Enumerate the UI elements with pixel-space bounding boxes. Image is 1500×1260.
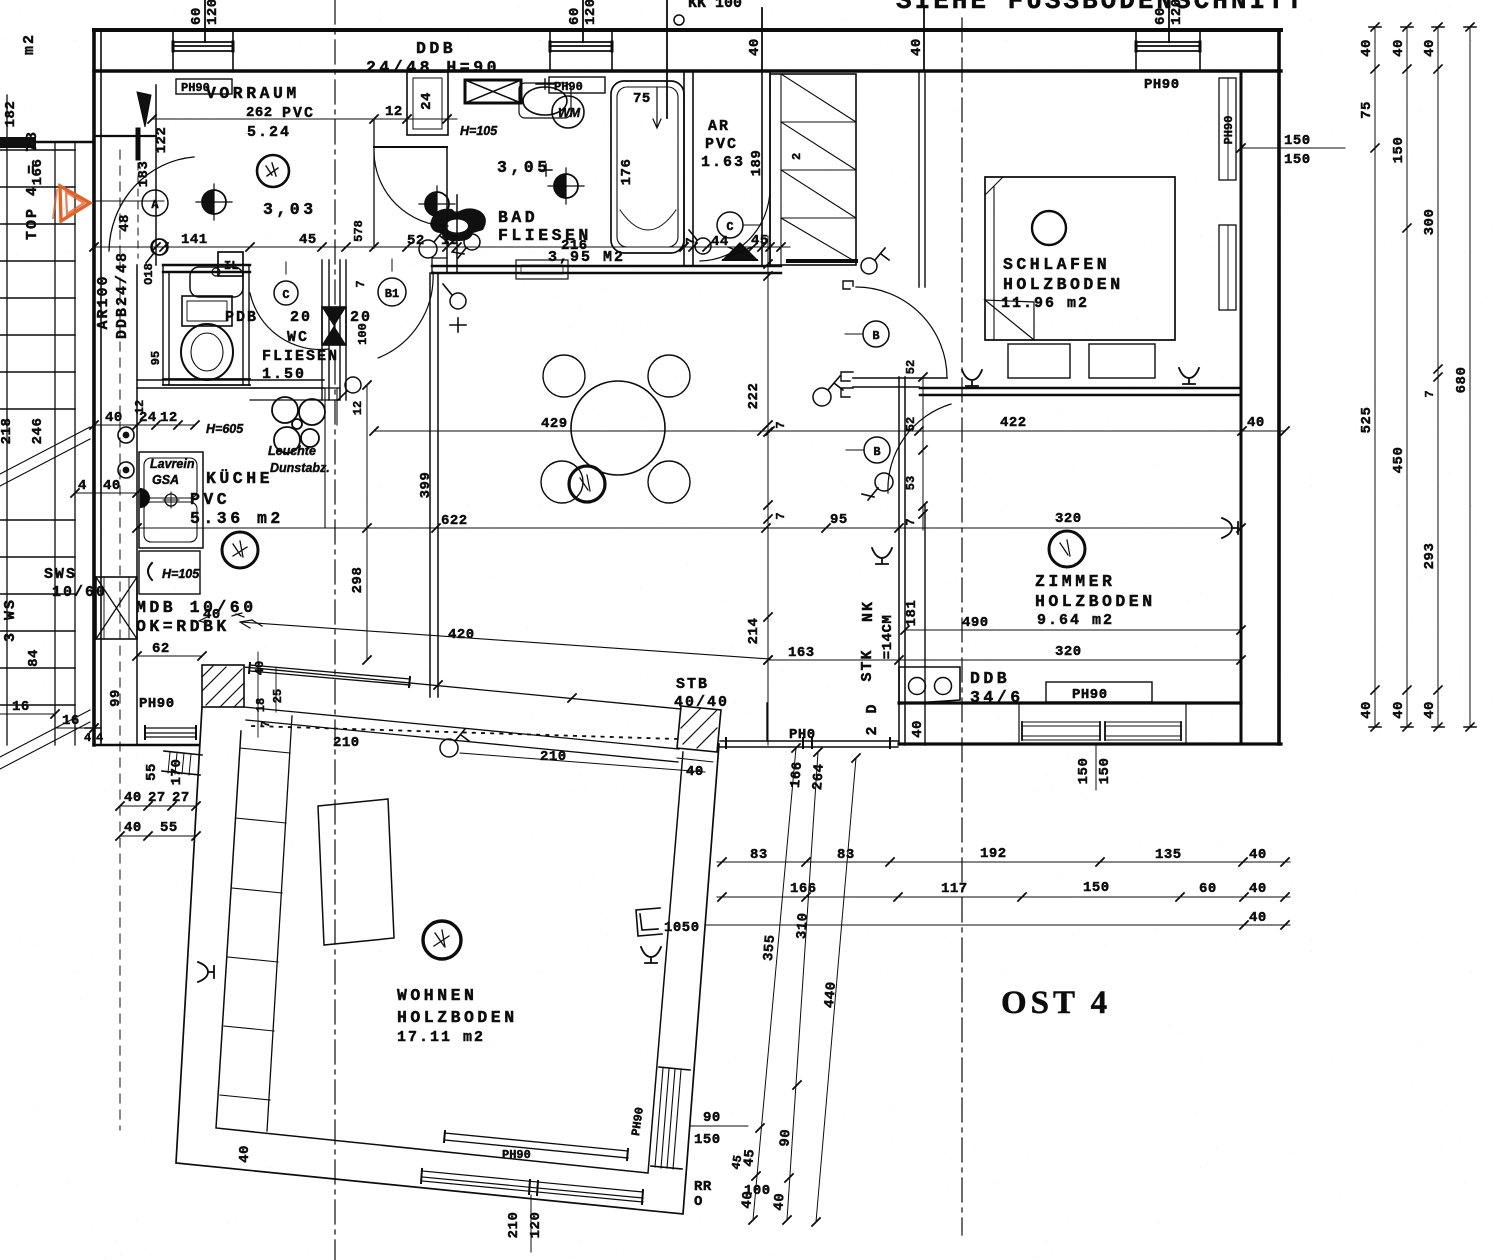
zimmer room label — [1035, 572, 1156, 629]
ticks on top line — [434, 681, 576, 702]
IL box symbol — [218, 252, 243, 276]
door handle circle — [151, 239, 167, 255]
diagonal dim line L1 166/355/45/40 — [739, 744, 806, 1224]
wohnen bottom window sill 2 — [421, 1169, 643, 1204]
stair: treads upper flight — [0, 150, 75, 409]
window W2 top wall — [550, 30, 612, 71]
dash-dot axis x335 — [334, 0, 336, 1260]
bottom-left dim 16 ticks — [0, 699, 98, 745]
wc door arc — [250, 293, 329, 350]
vertical text NK =14CM — [859, 600, 896, 736]
dim vertical x367 with 298 — [350, 381, 371, 664]
lamp below pillar — [338, 377, 361, 400]
node C circle hall — [274, 262, 298, 305]
wall: left inner — [100, 30, 102, 745]
wc toilet — [181, 296, 233, 380]
wall: left outer — [92, 30, 96, 745]
right column dim V1 40/75/525/40 — [1359, 23, 1381, 731]
stair: top thick bar — [0, 141, 94, 143]
light point symbol vorraum left — [196, 184, 232, 220]
PH0 window sill — [720, 738, 898, 748]
dim 210 right with line — [460, 749, 705, 772]
bad shower box with X — [465, 80, 521, 103]
wohnen stair band along left wall — [220, 716, 292, 1131]
wc bottom wall — [163, 379, 250, 385]
bad floor grate box — [516, 260, 568, 279]
ar right wall / wardrobe left — [762, 72, 770, 265]
diagonal dim line L2 264/310/90/40 — [771, 748, 828, 1224]
niche bottom wall — [853, 378, 947, 387]
wohnen outer walls — [176, 707, 719, 1214]
coat rack black blob — [430, 208, 486, 241]
dim line y630 490 — [901, 615, 1245, 634]
dim row H1 83/83/192/135/40 — [717, 846, 1290, 866]
wall: right outer — [1277, 30, 1281, 744]
text DDB 34/6 — [970, 669, 1024, 707]
wall: right inner — [1240, 71, 1243, 744]
schlafen room label — [1001, 255, 1124, 312]
dim 40 under right pier — [677, 758, 713, 780]
kitchen labels italic — [150, 422, 330, 581]
small dims near pier 40/18/25/7 — [253, 661, 285, 728]
dash-dot axis x962 — [961, 18, 963, 1235]
wohnen bottom window sill 1 — [444, 1131, 628, 1162]
ar threshold X symbol — [723, 243, 757, 260]
wohnen top wall lines — [244, 667, 681, 709]
kitchen right edge — [325, 388, 337, 528]
dim line 420 tilted — [240, 620, 770, 659]
node B1 circle hall — [378, 259, 406, 306]
long dim line y247 — [90, 232, 790, 254]
node B circle niche — [845, 321, 889, 347]
window W1 label box PH90 — [176, 79, 232, 95]
light point symbol vorraum right — [419, 186, 464, 222]
dim 150 150 right of wall — [1237, 133, 1345, 168]
zimmer windows in bottom wall — [1019, 703, 1186, 744]
window W1 top wall — [173, 30, 233, 71]
kitchen left wall x137 — [136, 265, 138, 745]
dim stub above wall x924 with 40 — [909, 8, 925, 70]
entrance door leaf black triangle — [137, 92, 151, 127]
dim line y660 163/320 — [764, 644, 1245, 664]
text SWS 10/60 — [44, 566, 107, 601]
dim line y201 left — [94, 200, 164, 202]
stair: vertical rails — [7, 95, 75, 745]
heating symbol corridor — [872, 548, 892, 564]
lamp mid wall — [443, 284, 466, 332]
dim 210 120 rotated bottom center — [506, 1195, 544, 1252]
node C circle ar — [717, 212, 762, 238]
left dim row 40 55 — [116, 820, 200, 840]
dim line y430 main 429/422/40 — [370, 415, 1289, 435]
kitchen faucet dark — [140, 488, 150, 508]
shelf right of wc — [250, 388, 340, 400]
wall: bottom band right section — [899, 703, 1281, 744]
lamp corridor lower — [862, 473, 893, 500]
right column dim V3 40/300/7/293/40 — [1422, 23, 1444, 731]
wc left wall — [163, 265, 169, 385]
kitchen H105 bracket — [148, 563, 152, 580]
window W3 top wall — [1136, 30, 1200, 71]
diagonal dim line L3 440 — [812, 754, 860, 1226]
tick 4 at x94 y728 — [85, 724, 103, 745]
wall stub x767 above PH0 — [766, 703, 768, 741]
stair: treads lower flight — [0, 520, 75, 705]
lower left window sill — [145, 726, 196, 739]
chimney pillar 20/20 — [322, 260, 346, 400]
dashed guide line x120 — [119, 150, 121, 1130]
schlafen door jamb bracket top — [843, 281, 853, 289]
wc right wall — [243, 265, 249, 385]
bad door arc — [374, 152, 448, 226]
PH90 boxed label — [1046, 682, 1152, 703]
zimmer left wall inner — [924, 505, 926, 745]
hall big door arc — [378, 272, 433, 358]
washing machine WM circle — [552, 96, 584, 128]
ar door arc — [700, 189, 770, 261]
vorraum right wall x374 — [373, 119, 375, 248]
dim row H2 166/117/150/60/40 — [717, 880, 1290, 901]
dim row H3 40 — [705, 910, 1290, 929]
heating symbol wohnen 1050 — [641, 947, 661, 963]
window W2 dim 60/120 — [567, 0, 599, 42]
kitchen stove burners — [272, 397, 325, 453]
wohnen top dotted line — [252, 726, 678, 739]
DDB 34/6 box with circles — [899, 667, 960, 704]
bad light point — [540, 164, 584, 204]
bracket symbol 1050 — [636, 908, 700, 936]
lamp symbol at entrance dim — [146, 239, 168, 263]
left dims 55 170 rotated — [144, 759, 185, 786]
dim vertical x768 with 222/7 — [746, 236, 788, 745]
wohnen tilted sideboard rect — [318, 799, 394, 945]
wohnen pier top-left hatched — [202, 665, 244, 707]
wardrobe with shelves — [770, 74, 856, 265]
heating symbols schlafen — [962, 368, 1199, 386]
kitchen sink unit — [139, 452, 203, 548]
dim line y656 62 — [133, 641, 206, 660]
node A circle — [142, 190, 168, 216]
dim line y493 kitchen — [71, 478, 141, 497]
wohnen outlet circle — [423, 921, 461, 959]
dim 45 40 100 bottom — [729, 1154, 745, 1171]
shaft box with X — [96, 577, 137, 639]
stair: section break diagonals — [0, 427, 90, 486]
double circle outlet B — [118, 462, 134, 478]
lamp pair right of pillar — [419, 230, 448, 258]
entrance lintel line — [94, 135, 156, 137]
dim 40 with arrows above okrdbk — [199, 607, 244, 623]
schlafen bed — [985, 177, 1175, 378]
corridor spine wall — [899, 377, 905, 745]
wohnen pier top-right hatched — [677, 706, 721, 752]
zimmer outlet circle — [1049, 531, 1085, 567]
wall bottom of bad/ar y266-273 — [432, 266, 781, 273]
dim line y528 622/95/320 — [133, 511, 1245, 532]
wall: top inner — [94, 69, 1281, 72]
lamp corridor upper — [813, 376, 843, 406]
wall: bottom left stub — [94, 744, 198, 746]
heating symbol wohnen left wall — [198, 962, 214, 982]
right column dim V2 40/150/450/40 — [1391, 23, 1413, 731]
dim 150 150 rotated below — [1076, 745, 1113, 790]
zimmer door arc — [888, 404, 951, 493]
wall between vorraum and bad y147 — [374, 146, 447, 148]
vorraum room label — [206, 84, 315, 141]
text MDB 10/60 OK=RDBK — [136, 598, 257, 636]
wc washbasin — [190, 267, 243, 297]
niche DDB closet vorraum — [407, 72, 448, 135]
kitchen top counter band — [137, 380, 324, 388]
entrance door axis dashes — [137, 150, 139, 258]
dim line y119 vorraum 262/12 — [148, 92, 457, 123]
orange marker arrow — [53, 186, 90, 221]
dim stub above wall x762 with 40 — [747, 8, 763, 70]
bad right wall — [684, 72, 693, 266]
window W1 dim 60/120 — [189, 0, 221, 42]
schlafen door arc — [856, 287, 947, 378]
niche bottom wall jambs — [841, 372, 853, 397]
dim line y425 kitchen — [90, 410, 199, 429]
text RR O — [694, 1179, 712, 1210]
dining outlet thick circle — [569, 466, 605, 502]
kitchen room label — [190, 469, 284, 528]
entrance jamb post — [136, 130, 141, 158]
wohnen top window sill bar — [249, 663, 410, 687]
wc top wall — [163, 265, 250, 272]
text STB 40/40 — [674, 676, 729, 711]
vorraum left wall line x156 — [155, 85, 157, 265]
text DDB 24/48 H=90 — [366, 39, 500, 77]
schlafen left wall upper — [919, 72, 925, 287]
entrance door swing arc — [109, 157, 194, 251]
double circle outlet A — [118, 427, 134, 443]
bad room label — [498, 208, 625, 266]
dining table with chairs — [541, 355, 690, 503]
node B circle corridor — [846, 437, 890, 463]
right wall window bar lower — [1219, 225, 1236, 310]
bad left wall — [447, 147, 457, 273]
wohnen right wall window bar — [651, 1067, 690, 1169]
dims 90 150 bottom right — [690, 1110, 748, 1148]
schlafen bottom wall — [920, 388, 1241, 395]
bathtub — [611, 81, 684, 253]
axis line vertical x667 top — [666, 0, 668, 118]
lamp symbol ar door — [689, 230, 711, 254]
wohnen room label — [397, 986, 518, 1046]
window W3 dim 60/120 — [1153, 0, 1185, 42]
left dim row 40 27 27 — [116, 790, 200, 810]
vorraum ceiling rose circle — [257, 155, 289, 187]
heating symbol at 320 line — [1222, 518, 1238, 538]
dim line x923 vertical — [904, 360, 927, 530]
window W2 label box PH90 — [549, 77, 605, 94]
stair: section break diagonals lower — [0, 710, 90, 769]
kitchen tall cabinet — [139, 551, 200, 594]
dining left wall x430/438 — [430, 273, 438, 697]
ar room label — [701, 118, 745, 171]
dim 75 with arrow — [633, 88, 661, 128]
lamp wardrobe bottom — [861, 248, 889, 274]
bad washbasin — [519, 79, 571, 118]
wall: top outer — [94, 28, 1281, 32]
hall texts PDB 20 20 — [225, 309, 372, 383]
small circle top — [674, 15, 684, 25]
kitchen outlet circle — [222, 532, 258, 568]
lamp near wohnen top — [440, 729, 469, 757]
wohnen inner walls — [216, 731, 683, 1173]
bed lamp circle — [1032, 211, 1066, 245]
right wall window bar upper — [1219, 78, 1236, 180]
wohnen left wall window bar — [162, 751, 202, 775]
right column dim V4 680 — [1454, 23, 1476, 731]
